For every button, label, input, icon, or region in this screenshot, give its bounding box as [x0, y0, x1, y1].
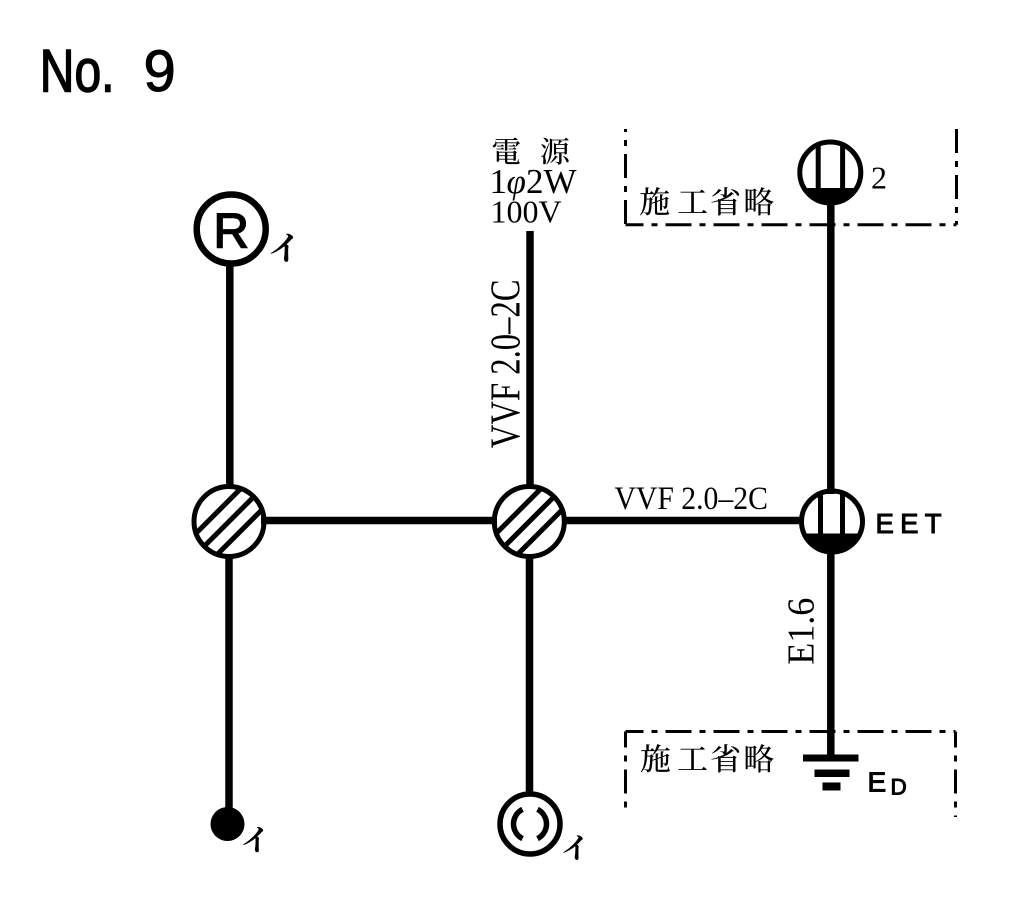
joint box left [194, 487, 264, 557]
svg-text:D: D [891, 775, 907, 800]
svg-text:No.: No. [40, 37, 115, 104]
svg-text:2: 2 [871, 160, 887, 196]
label イ for rosette [563, 835, 583, 860]
label イ for switch [243, 827, 263, 852]
outlet 2 (top right, wall mount double) [800, 142, 861, 203]
wire middle joint box to ceiling rosette [526, 555, 534, 792]
label 施工省略 top [640, 187, 774, 215]
wire outlet EET to earth ED [827, 550, 835, 757]
svg-text:VVF 2.0–2C: VVF 2.0–2C [483, 279, 530, 448]
wire R to left joint box [226, 263, 234, 489]
joint box middle [494, 487, 564, 557]
title No. 9 [40, 37, 115, 104]
cable label VVF 2.0-2C horizontal [615, 480, 768, 517]
outlet EET (wall mount with earth terminal) [802, 491, 863, 552]
wire outlet 2 to outlet EET [827, 203, 835, 494]
dash-dot box top right (construction omitted) [626, 129, 957, 225]
svg-text:VVF 2.0–2C: VVF 2.0–2C [615, 480, 768, 517]
svg-text:100V: 100V [491, 194, 562, 230]
dash-dot box bottom right (construction omitted) [626, 732, 956, 818]
svg-text:9: 9 [144, 39, 176, 104]
svg-text:R: R [214, 204, 249, 258]
lamp R (lighting fixture) circle [197, 195, 266, 264]
label 施工省略 bottom [641, 744, 774, 772]
wire middle joint box to outlet EET [562, 517, 804, 525]
earth electrode ED [803, 755, 859, 791]
svg-text:E1.6: E1.6 [781, 598, 823, 665]
wire power source to middle joint box [526, 231, 534, 489]
wire left joint box to switch [225, 555, 233, 810]
wire left joint box to middle joint box [261, 517, 497, 525]
svg-text:E: E [868, 767, 887, 798]
svg-text:EET: EET [876, 508, 948, 539]
ceiling rosette lamp イ [500, 794, 560, 854]
power source label 電源 [493, 137, 520, 164]
switch イ (black dot) [211, 807, 245, 841]
label イ for lamp R [271, 234, 293, 262]
